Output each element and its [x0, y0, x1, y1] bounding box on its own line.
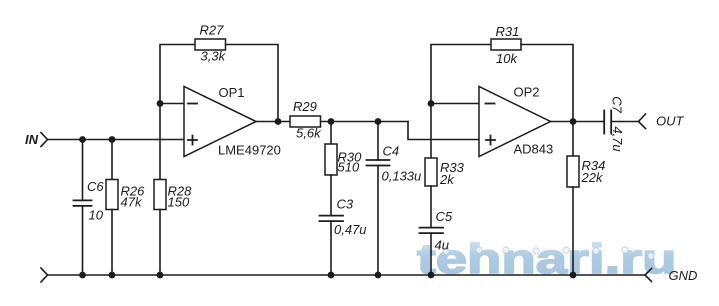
wire: C6 branch down: [82, 140, 84, 201]
resistor R26 body: [106, 180, 118, 210]
resistor R30 body: [325, 144, 337, 175]
svg-text:C4: C4: [383, 144, 400, 159]
svg-text:LME49720: LME49720: [218, 142, 281, 157]
wire: C4 to ground bus: [377, 166, 379, 276]
wire: R34 branch down: [572, 122, 574, 157]
wire: ground bus: [48, 274, 646, 276]
svg-text:R29: R29: [293, 99, 317, 114]
ground left connector chevron: [41, 268, 48, 282]
svg-text:10: 10: [89, 208, 104, 223]
wire: C3 to ground bus: [330, 221, 332, 275]
wire: OP1 feedback right side to output: [226, 45, 279, 122]
ground right GND connector chevron: [645, 269, 652, 282]
wire: OP2 feedback right side to output: [521, 45, 573, 122]
svg-text:150: 150: [168, 195, 190, 210]
junction: ground/R28: [157, 272, 164, 279]
svg-text:IN: IN: [25, 132, 39, 147]
wire: C7 to OUT connector: [611, 121, 638, 123]
svg-text:R31: R31: [496, 24, 520, 39]
wire: OP1 output to R29: [256, 121, 290, 123]
wire: R30 to C3: [330, 175, 332, 216]
wire: R33 branch down from inverting node: [430, 104, 432, 159]
junction: OP1 output/feedback: [275, 118, 282, 125]
svg-text:47k: 47k: [121, 195, 143, 210]
capacitor C5 plates: [420, 228, 444, 234]
wire: OP2 output to C7: [551, 121, 605, 123]
junction: R29 out/R30: [328, 118, 335, 125]
junction: ground/R34: [570, 272, 577, 279]
capacitor C3 plates: [320, 216, 344, 222]
svg-text:5,6k: 5,6k: [296, 126, 322, 141]
node OUT connector chevron: [639, 114, 646, 129]
watermark tehnari.ru: [417, 235, 676, 282]
OP1 minus pin mark: [188, 103, 197, 105]
svg-text:GND: GND: [669, 268, 698, 283]
OP2 minus pin mark: [486, 103, 495, 105]
svg-text:OUT: OUT: [656, 114, 685, 129]
wire: R30 branch down: [330, 122, 332, 145]
resistor R31 body: [491, 39, 521, 50]
wire: OP1 feedback left vertical: [160, 45, 195, 104]
capacitor C7 plates: [604, 111, 611, 134]
svg-text:AD843: AD843: [514, 141, 554, 156]
OP1 plus pin mark: [188, 136, 197, 145]
wire: step down to OP2 + input: [408, 122, 479, 140]
svg-text:10k: 10k: [496, 51, 518, 66]
OP2 plus pin mark: [486, 136, 495, 145]
op-amp OP2 triangle: [479, 87, 551, 157]
junction: C4 node: [375, 118, 382, 125]
resistor R33 body: [425, 158, 437, 186]
wire: R26 to ground bus: [111, 210, 113, 276]
junction: ground/C3: [328, 272, 335, 279]
wire: R33 to C5: [430, 186, 432, 228]
svg-text:C7: C7: [610, 96, 625, 113]
junction: OP2 inverting node: [428, 100, 435, 107]
junction: ground/C4: [375, 272, 382, 279]
wire: C6 to ground bus: [82, 206, 84, 275]
junction: ground/R26: [109, 272, 116, 279]
svg-text:OP1: OP1: [219, 85, 245, 100]
junction: OP1 inverting node: [157, 100, 164, 107]
junction: input/R26: [109, 136, 116, 143]
svg-text:0,47u: 0,47u: [334, 222, 367, 237]
wire: OP2 inverting input: [431, 103, 479, 105]
wire: OP1 inverting input: [160, 103, 184, 105]
junction: ground/C6: [79, 272, 86, 279]
svg-text:22k: 22k: [581, 170, 604, 185]
capacitor C6 plates: [74, 200, 92, 206]
svg-text:2k: 2k: [439, 172, 455, 187]
resistor R34 body: [567, 156, 579, 187]
svg-text:R27: R27: [200, 23, 225, 38]
wire: R29 to step node: [321, 121, 409, 123]
junction: OP2 output/feedback/R34: [570, 118, 577, 125]
svg-text:4,7u: 4,7u: [610, 126, 625, 151]
resistor R28 body: [154, 180, 166, 210]
node IN connector chevron: [41, 133, 48, 147]
wire: C5 to ground bus: [430, 233, 432, 275]
wire: R28 from OP1 inverting node down: [159, 104, 161, 180]
svg-text:4u: 4u: [435, 238, 449, 253]
wire: OP2 feedback left vertical: [431, 45, 491, 104]
wire: R28 to ground bus: [159, 210, 161, 276]
svg-text:C6: C6: [87, 179, 104, 194]
svg-text:C5: C5: [436, 209, 453, 224]
svg-text:OP2: OP2: [514, 85, 540, 100]
wire: R34 to ground bus: [572, 187, 574, 275]
capacitor C4 plates: [367, 160, 390, 166]
resistor R29 body: [290, 116, 321, 127]
resistor R27 body: [195, 39, 226, 50]
wire: R26 branch down: [111, 140, 113, 180]
svg-text:3,3k: 3,3k: [201, 49, 227, 64]
svg-text:0,133u: 0,133u: [382, 169, 422, 184]
svg-text:510: 510: [338, 159, 360, 174]
op-amp OP1 triangle: [184, 87, 256, 157]
wire: input bus IN to OP1 + input: [48, 139, 185, 141]
wire: C4 branch down: [377, 122, 379, 161]
svg-text:C3: C3: [337, 196, 354, 211]
junction: input/C6: [79, 136, 86, 143]
junction: ground/C5: [428, 272, 435, 279]
